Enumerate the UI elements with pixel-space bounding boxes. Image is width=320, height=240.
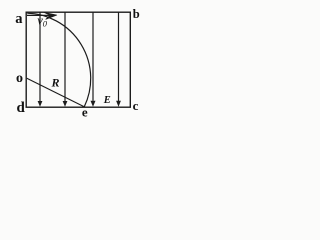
field line 3	[92, 13, 94, 101]
arrowhead field line 3	[91, 101, 96, 107]
svg-text:e: e	[82, 105, 88, 120]
rectangle region abcd (capacitor plates boundary)	[26, 12, 130, 107]
arrowhead field line 4	[116, 101, 121, 107]
svg-text:E: E	[103, 95, 111, 106]
radius line o-e	[27, 78, 84, 107]
trajectory arc a-e	[27, 13, 91, 107]
field line 4	[118, 13, 120, 102]
arrowhead field line 2	[63, 101, 68, 107]
svg-text:d: d	[17, 100, 26, 116]
svg-text:c: c	[133, 98, 139, 113]
velocity arrow v0 head	[44, 12, 57, 19]
svg-text:a: a	[15, 11, 23, 27]
arrowhead field line 1	[38, 101, 43, 107]
field line 1	[39, 13, 41, 102]
field line 2	[64, 13, 66, 102]
svg-text:o: o	[16, 71, 23, 86]
svg-text:b: b	[133, 7, 140, 21]
svg-text:R: R	[51, 75, 60, 89]
velocity arrow v0 shaft	[27, 14, 51, 16]
